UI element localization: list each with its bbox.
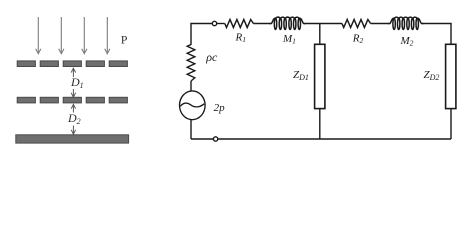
impedance ZD2 branch wire lower	[450, 109, 452, 139]
source 2p (AC)	[180, 91, 206, 120]
resistor R2	[342, 20, 371, 28]
inductor M1	[270, 17, 305, 29]
pressure arrow 2	[59, 17, 64, 54]
svg-text:2p: 2p	[214, 102, 226, 114]
wire M2 to top-right corner	[422, 24, 451, 45]
perforated plate row 2	[17, 97, 127, 103]
impedance ZD1 branch wire lower	[319, 109, 321, 139]
pressure arrow 3	[82, 17, 87, 54]
terminal bottom (open circle)	[213, 137, 217, 141]
dimension arrow D1 lower	[71, 89, 75, 97]
wire M1 to R2 with node ZD1	[305, 23, 343, 25]
perforated plate row 1	[17, 61, 127, 67]
impedance ZD1	[315, 44, 325, 108]
inductor M2	[389, 17, 423, 29]
wire source to bottom	[190, 120, 192, 139]
dimension arrow D2 lower	[71, 126, 75, 135]
wire bottom-left	[191, 138, 213, 140]
resistor R1	[225, 20, 254, 28]
impedance ZD1 branch wire upper	[319, 24, 321, 45]
dimension arrow D2 upper	[71, 104, 75, 112]
svg-text:P: P	[121, 33, 128, 47]
dimension arrow D1 upper	[71, 68, 75, 77]
terminal top (open circle)	[212, 21, 216, 25]
backplate	[16, 135, 129, 143]
wire R1 to M1	[253, 23, 270, 25]
wire bottom	[218, 138, 451, 140]
wire top-left horizontal	[191, 24, 212, 46]
impedance ZD2	[446, 44, 456, 108]
wire R2 to M2	[371, 23, 390, 25]
wire top to R1	[217, 23, 225, 25]
wire rho-c to source	[190, 81, 192, 91]
resistor rho-c	[187, 45, 195, 82]
pressure arrow 4	[105, 17, 110, 54]
pressure arrow 1	[36, 17, 41, 54]
svg-text:ρc: ρc	[205, 50, 218, 64]
